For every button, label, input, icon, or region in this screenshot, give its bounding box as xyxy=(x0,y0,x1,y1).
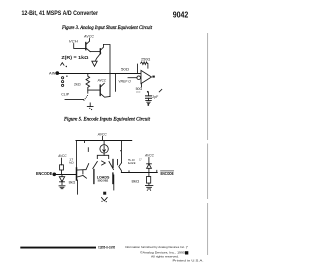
tail junction square xyxy=(103,192,106,195)
svg-text:Printed in U.S.A.: Printed in U.S.A. xyxy=(173,258,204,262)
footer logo square xyxy=(185,251,188,254)
svg-text:Information furnished by Analo: Information furnished by Analog Devices … xyxy=(125,245,185,249)
left branch wire from rail xyxy=(76,141,78,169)
svg-text:CLIP: CLIP xyxy=(61,93,70,97)
label AVCC left xyxy=(57,154,66,158)
QL collector xyxy=(77,164,89,174)
svg-text:2pF: 2pF xyxy=(152,95,158,99)
label VREF xyxy=(118,79,131,83)
label AVCC top xyxy=(83,35,94,39)
junction dot xyxy=(147,91,149,93)
wire CLIP node xyxy=(65,98,84,100)
label 8k left xyxy=(69,180,76,184)
label ENCODEB xyxy=(161,171,174,176)
svg-text:8kΩ: 8kΩ xyxy=(69,180,76,184)
svg-text:9042: 9042 xyxy=(173,9,189,19)
svg-text:ENCODE: ENCODE xyxy=(161,171,174,176)
page background xyxy=(0,0,213,275)
bold label Z(R)=1k xyxy=(61,55,89,60)
svg-text:≈≈: ≈≈ xyxy=(136,90,141,94)
label 50k stacked xyxy=(128,158,137,165)
resistor R1 17k xyxy=(61,158,63,165)
diff pair right transistor Q2 xyxy=(109,162,114,170)
current source I1 xyxy=(100,145,108,153)
ENCODE wire xyxy=(56,174,77,176)
diode D1 below wire xyxy=(61,175,63,177)
svg-text:17: 17 xyxy=(139,157,142,161)
svg-text:ENCODE: ENCODE xyxy=(36,171,52,176)
QL emitter xyxy=(77,176,87,179)
center load bar left xyxy=(93,170,95,184)
ground symbol left xyxy=(87,103,93,107)
ENCODEB wire xyxy=(121,172,157,174)
label 250 ohm xyxy=(141,58,151,62)
svg-text:AVCC: AVCC xyxy=(97,78,107,82)
ENCODE terminal xyxy=(53,173,56,176)
label 17k xyxy=(69,157,74,164)
footer rule xyxy=(20,247,96,249)
label AVCC right xyxy=(144,154,154,158)
svg-text:7: 7 xyxy=(186,245,188,249)
mark above input line xyxy=(66,66,67,67)
svg-text:2kΩ: 2kΩ xyxy=(74,82,81,86)
label 2k xyxy=(74,82,81,86)
center load bar right xyxy=(112,173,114,184)
diff pair emitter chevron xyxy=(102,161,106,165)
lower input wire with bubble xyxy=(128,77,137,79)
label 50 ohm upper xyxy=(121,67,129,71)
resistor R 2k vertical zigzag xyxy=(86,74,90,91)
svg-text:VCH: VCH xyxy=(69,39,78,43)
ground right xyxy=(145,186,153,189)
junction tick xyxy=(128,171,130,173)
terminal tick right xyxy=(156,170,158,172)
tail current source chevron xyxy=(102,198,108,201)
label 17k right tick xyxy=(139,157,142,161)
svg-text:C1855–8–10/95: C1855–8–10/95 xyxy=(98,246,115,250)
label AVCC mid xyxy=(97,78,107,82)
right branch elbow xyxy=(119,163,122,173)
speck xyxy=(120,150,121,151)
QL emitter down xyxy=(77,180,79,194)
svg-text:AIN: AIN xyxy=(49,71,56,75)
ground symbol below capacitor xyxy=(146,98,152,103)
label AIN xyxy=(49,71,56,75)
diff pair left transistor Q1 xyxy=(93,162,98,169)
tick below rail xyxy=(84,141,86,143)
label 50 ohm lower xyxy=(136,87,143,91)
svg-text:AVCC: AVCC xyxy=(83,35,94,39)
svg-text:Figure 5. Encode Inputs Equiva: Figure 5. Encode Inputs Equivalent Circu… xyxy=(63,116,150,122)
wire Q1 emitter to Q2 base xyxy=(90,51,100,53)
input terminal xyxy=(56,72,59,75)
svg-text:Figure 3. Analog Input Shunt E: Figure 3. Analog Input Shunt Equivalent … xyxy=(61,25,152,31)
svg-text:AVCC: AVCC xyxy=(144,154,154,158)
buffer amp triangle xyxy=(141,70,152,83)
caret mark xyxy=(61,63,64,66)
collector hook wire to long vertical xyxy=(104,45,111,97)
vertical stub 2 xyxy=(115,74,117,92)
svg-text:50Ω: 50Ω xyxy=(121,67,129,71)
tick AVCC to rail xyxy=(102,136,104,140)
center label block xyxy=(97,175,110,182)
label 8k right xyxy=(132,180,140,184)
label AVCC top center xyxy=(97,132,107,136)
ground triangle below Q2 xyxy=(92,61,97,66)
input wire xyxy=(59,73,140,75)
right branch wire from rail xyxy=(121,141,123,163)
ENCODE label xyxy=(36,171,52,176)
svg-text:250Ω: 250Ω xyxy=(141,58,151,62)
label CLIP xyxy=(61,93,70,97)
wire VCH to Q1 base xyxy=(74,44,86,49)
resistor 250 ohm zigzag xyxy=(141,62,148,68)
svg-text:8kΩ: 8kΩ xyxy=(132,180,140,184)
label 2pF xyxy=(152,95,158,99)
tick near rail xyxy=(87,148,89,152)
transistor QL bar xyxy=(76,168,78,180)
svg-text:Z(R) = 1kΩ: Z(R) = 1kΩ xyxy=(61,55,89,60)
vertical stub to 250 ohm xyxy=(137,64,139,74)
output square xyxy=(152,76,154,78)
collector bracket xyxy=(97,155,108,158)
svg-text:AVCC: AVCC xyxy=(57,154,66,158)
svg-text:VREF O: VREF O xyxy=(118,79,131,83)
transistor Q2 xyxy=(99,49,101,54)
capacitor C xyxy=(148,93,150,96)
scan artifact vertical line xyxy=(207,33,209,255)
transistor QR bar xyxy=(112,160,114,168)
dotted diagonal to resistor xyxy=(83,100,84,101)
diode dot stack xyxy=(62,77,64,79)
ground left xyxy=(59,186,65,189)
transistor Q1 xyxy=(85,43,87,50)
QR collector tick xyxy=(117,159,119,164)
svg-text:50Ω 50Ω: 50Ω 50Ω xyxy=(98,179,109,183)
diode D2 to AVCC right xyxy=(148,158,150,164)
transistor Q3 xyxy=(99,85,101,96)
label VCH xyxy=(69,39,78,43)
wire resistor to Q3 base xyxy=(88,90,100,93)
svg-text:12-Bit, 41 MSPS A/D Converter: 12-Bit, 41 MSPS A/D Converter xyxy=(22,10,99,17)
QR emitter down xyxy=(113,175,115,190)
power rail xyxy=(76,140,132,142)
tick below triangle xyxy=(141,84,143,87)
svg-text:AVCC: AVCC xyxy=(97,132,107,136)
tick mark right xyxy=(159,89,162,92)
resistor R2 8k right xyxy=(148,173,150,177)
